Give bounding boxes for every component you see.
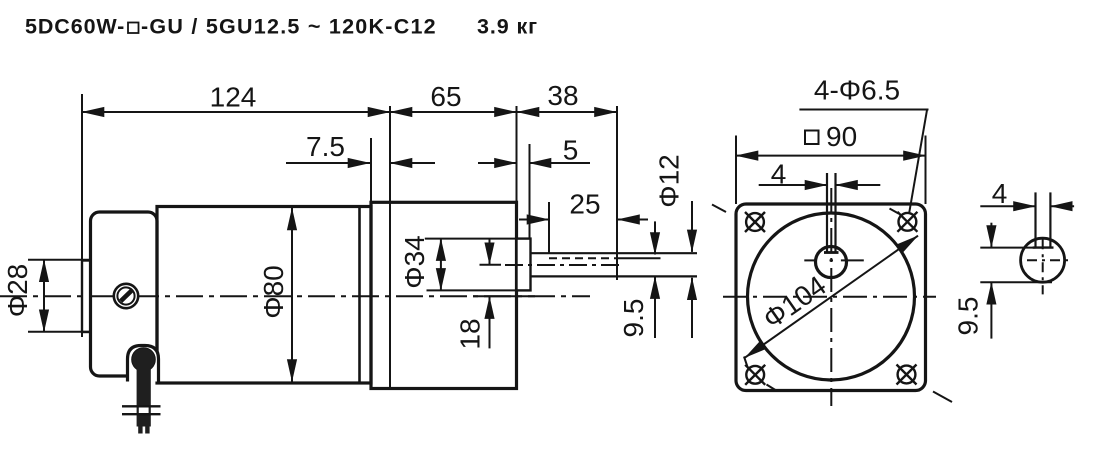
- detail keyway: [1033, 192, 1054, 247]
- dim 124: [82, 82, 390, 113]
- dim square90: [736, 121, 926, 204]
- svg-text:Φ104: Φ104: [757, 270, 831, 335]
- svg-text:124: 124: [210, 82, 257, 113]
- dim 25: [519, 189, 648, 220]
- dim phi12: [654, 154, 693, 338]
- svg-text:Φ80: Φ80: [258, 265, 289, 318]
- dim 9.5 side: [618, 221, 655, 338]
- corner hole BL: [745, 365, 777, 391]
- svg-text:4-Φ6.5: 4-Φ6.5: [814, 75, 900, 106]
- corner hole TL: [712, 205, 765, 233]
- dim phi80: [258, 208, 292, 382]
- svg-text:Φ34: Φ34: [399, 235, 430, 288]
- gearbox circle: [748, 213, 915, 380]
- dim 65: [390, 81, 517, 112]
- dim phi104: [744, 236, 918, 367]
- svg-text:4: 4: [771, 159, 787, 190]
- dim 4 detail: [980, 178, 1074, 209]
- svg-text:7.5: 7.5: [306, 131, 345, 162]
- extension line boss face: [529, 144, 531, 239]
- gearbox body: [371, 202, 517, 388]
- end bell: [91, 212, 158, 376]
- output boss: [517, 239, 531, 291]
- corner hole TR: [890, 209, 918, 232]
- dim 38: [517, 80, 617, 112]
- keyway start line: [548, 202, 550, 253]
- svg-text:3.9 кг: 3.9 кг: [477, 15, 538, 39]
- corner hole BR: [897, 365, 953, 403]
- motor body: [157, 207, 371, 384]
- svg-text:5DC60W-: 5DC60W-: [25, 15, 125, 39]
- dim 18: [455, 239, 536, 350]
- cable grommet: [132, 348, 156, 372]
- svg-text:9.5: 9.5: [953, 297, 984, 336]
- svg-text:5: 5: [563, 135, 579, 166]
- flange square: [736, 204, 926, 391]
- svg-text:65: 65: [430, 81, 461, 112]
- cable: [137, 357, 151, 427]
- dim 7.5: [286, 131, 435, 163]
- dim phi34: [399, 235, 517, 290]
- dim 4 front: [759, 159, 881, 190]
- svg-text:Φ28: Φ28: [2, 264, 33, 317]
- svg-text:4: 4: [992, 178, 1008, 209]
- svg-text:25: 25: [569, 189, 600, 220]
- extension line gearbox right: [516, 106, 518, 202]
- svg-text:18: 18: [455, 318, 486, 349]
- rear boss: [82, 261, 91, 333]
- shaft centerline: [505, 264, 624, 266]
- front horizontal centerline: [723, 296, 936, 298]
- dim 5: [478, 135, 590, 166]
- shaft end / 38 extension line: [616, 106, 618, 280]
- output shaft: [531, 253, 698, 276]
- dim 9.5 detail: [953, 223, 1053, 339]
- svg-text:9.5: 9.5: [618, 299, 649, 338]
- svg-text:Φ12: Φ12: [654, 154, 685, 207]
- detail crosshair: [1027, 239, 1069, 294]
- extension line 124 left: [81, 94, 83, 337]
- front vertical centerline: [830, 188, 832, 406]
- wire prongs: [138, 425, 142, 434]
- svg-text:38: 38: [547, 80, 578, 111]
- shaft keyway hidden line: [549, 257, 618, 259]
- cable clamp lines: [122, 405, 161, 407]
- svg-text:90: 90: [826, 121, 857, 152]
- title: [25, 15, 538, 39]
- svg-text:-GU / 5GU12.5 ~ 120K-C12: -GU / 5GU12.5 ~ 120K-C12: [141, 15, 437, 39]
- shaft flat extension line: [618, 257, 661, 259]
- dim phi28: [2, 260, 90, 332]
- motor flange divider: [358, 207, 361, 384]
- detail circle: [1021, 238, 1065, 282]
- front shaft circle: [816, 247, 847, 278]
- gearbox interface line: [389, 106, 391, 389]
- front keyway slot: [824, 173, 839, 253]
- label 4-phi6.5: [799, 75, 928, 215]
- cable bushing arch: [128, 346, 159, 382]
- front shaft horizontal tick: [804, 259, 864, 261]
- extension line gearbox face: [370, 138, 372, 202]
- motor centerline: [0, 295, 590, 297]
- screw head: [114, 284, 138, 308]
